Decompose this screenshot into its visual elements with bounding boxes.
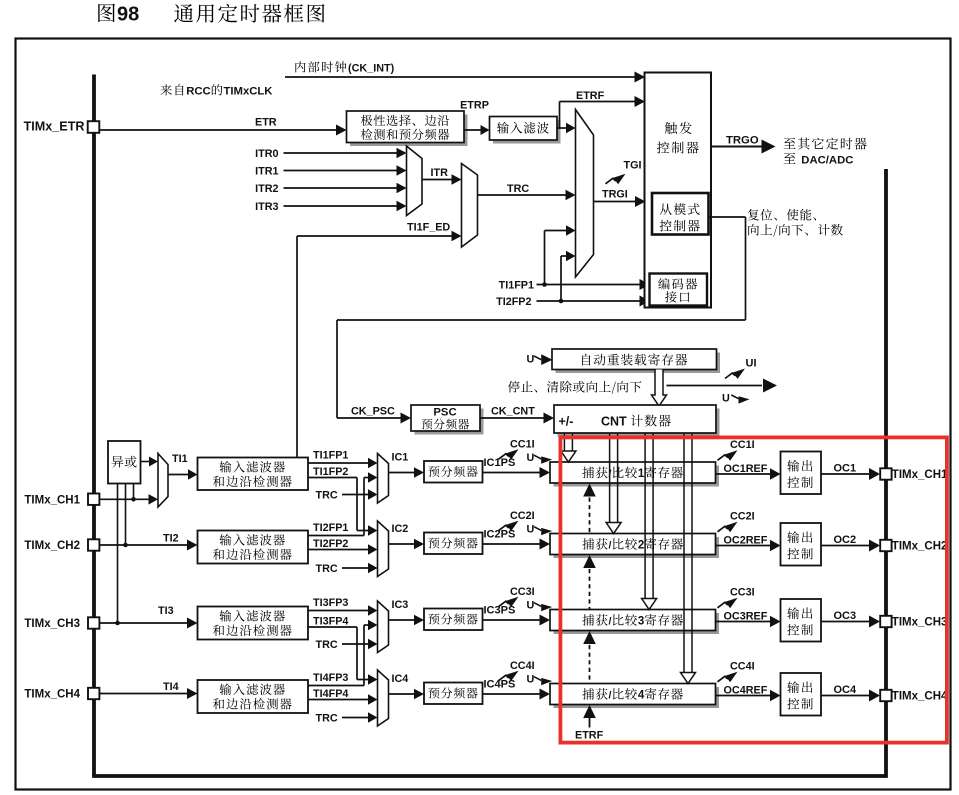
- pin TIMx_CH1: [24, 494, 99, 507]
- wire U event symbol: [722, 393, 750, 405]
- label 复位、使能、向上/向下、计数: [748, 209, 843, 237]
- wire TRC to trigger mux: [478, 183, 576, 200]
- block U2 输入滤波: [490, 117, 561, 144]
- wire IC1: [389, 452, 425, 478]
- wire cross down into row 2 mux: [357, 525, 378, 535]
- svg-text:TIMx_CH3: TIMx_CH3: [24, 618, 80, 630]
- label 捕获/比较2寄存器: [582, 538, 683, 552]
- hollow arrow auto-reload to counter: [652, 370, 667, 407]
- wire TI1FP1: [308, 450, 378, 469]
- hollow arrow counter to capture 2: [606, 434, 621, 534]
- pin TIMx_ETR: [24, 120, 100, 134]
- label 捕获/比较1寄存器: [582, 466, 683, 480]
- svg-text:TI2FP2: TI2FP2: [313, 538, 348, 550]
- pin TIMx_CH2 right: [880, 540, 947, 553]
- svg-text:U: U: [527, 674, 535, 686]
- svg-text:TI1: TI1: [172, 453, 188, 465]
- svg-text:IC1: IC1: [392, 452, 409, 464]
- block output control 输出控制 row 2: [781, 523, 822, 566]
- interrupt CC1I left: [499, 439, 535, 460]
- svg-text:OC1REF: OC1REF: [724, 463, 768, 475]
- pin TIMx_CH4 right: [880, 690, 948, 703]
- mux IC4 selector: [378, 670, 389, 726]
- wire TI4FP4: [308, 688, 378, 705]
- wire OC4REF: [716, 685, 781, 702]
- svg-text:TIMx_CH2: TIMx_CH2: [24, 540, 80, 552]
- block U7 PSC 预分频器: [411, 405, 484, 435]
- interrupt CC1I right: [718, 439, 755, 461]
- svg-text:TI4FP4: TI4FP4: [313, 688, 348, 700]
- block prescaler 预分频器 row 3: [424, 609, 483, 631]
- wire ETRF branch into mux: [557, 123, 576, 133]
- wire TIMx_CH1 input: [99, 494, 158, 505]
- wire U capture row 3: [527, 600, 553, 612]
- svg-text:(CK_INT): (CK_INT): [348, 63, 395, 75]
- svg-text:TI1FP2: TI1FP2: [313, 466, 348, 478]
- svg-text:TI3FP3: TI3FP3: [313, 597, 348, 609]
- wire OC2REF: [716, 535, 781, 552]
- left bus wire: [92, 75, 96, 777]
- wire IC2: [389, 523, 425, 549]
- wire U event into auto-reload: [527, 354, 553, 366]
- svg-text:CC3I: CC3I: [510, 586, 535, 598]
- wire TRC row 2: [316, 563, 378, 575]
- svg-text:IC4: IC4: [392, 673, 409, 685]
- svg-text:TI3: TI3: [158, 605, 174, 617]
- block capture compare register 3: [550, 610, 719, 635]
- interrupt CC2I right: [718, 511, 755, 533]
- wire TRGI: [594, 189, 646, 208]
- wire TI4FP3: [308, 625, 364, 686]
- svg-text:ETRF: ETRF: [576, 90, 605, 102]
- interrupt TGI: [606, 160, 642, 185]
- wire OC1: [821, 463, 880, 481]
- svg-text:CC4I: CC4I: [730, 661, 755, 673]
- svg-text:TI2FP1: TI2FP1: [313, 522, 348, 534]
- block capture compare register 4: [550, 684, 719, 709]
- wire TI4: [99, 681, 197, 699]
- svg-text:ITR1: ITR1: [255, 165, 278, 177]
- label 内部时钟 (CK_INT): [295, 61, 394, 74]
- wires ITR0-ITR3: [255, 148, 406, 213]
- wire U event out: [667, 379, 778, 393]
- svg-text:TIMx_CH1: TIMx_CH1: [892, 469, 948, 481]
- mux IC2 selector: [378, 521, 389, 577]
- wire CK_INT internal clock: [285, 72, 645, 83]
- svg-text:ITR3: ITR3: [255, 201, 278, 213]
- svg-text:TI4FP3: TI4FP3: [313, 672, 348, 684]
- svg-text:98: 98: [117, 4, 139, 26]
- pin TIMx_CH1 right: [880, 468, 948, 481]
- wire TI3FP4: [308, 616, 357, 680]
- svg-text:/: /: [609, 540, 612, 552]
- svg-text:ETRF: ETRF: [575, 730, 604, 742]
- block capture compare register 2: [550, 534, 719, 559]
- block input filter 输入滤波器和边沿检测器 row 4: [198, 680, 309, 713]
- block U5 编码器接口: [650, 274, 708, 306]
- wire TI2FP2 to encoder: [496, 296, 650, 309]
- block U6 自动重装载寄存器: [552, 349, 720, 373]
- block prescaler 预分频器 row 4: [424, 683, 483, 705]
- wire ETRF to trigger controller: [557, 90, 645, 128]
- svg-text:U: U: [527, 452, 535, 464]
- dashed capture feedback arrow 3: [583, 631, 596, 683]
- block output control 输出控制 row 1: [781, 452, 822, 495]
- svg-text:OC4: OC4: [834, 684, 858, 696]
- block output control 输出控制 row 4: [781, 673, 822, 716]
- block capture compare register 1: [550, 462, 719, 487]
- wire TI1FP2: [308, 466, 357, 531]
- wire IC3: [389, 599, 425, 625]
- svg-text:ETR: ETR: [255, 117, 277, 129]
- svg-text:CNT: CNT: [601, 415, 627, 429]
- svg-text:PSC: PSC: [433, 407, 456, 419]
- label 停止、清除或向上/向下: [508, 381, 642, 394]
- svg-text:U: U: [527, 354, 535, 366]
- svg-text:DAC/ADC: DAC/ADC: [801, 155, 853, 167]
- svg-text:OC3REF: OC3REF: [724, 611, 768, 623]
- svg-text:TI3FP4: TI3FP4: [313, 616, 348, 628]
- block input filter 输入滤波器和边沿检测器 row 2: [198, 531, 309, 564]
- label 捕获/比较4寄存器: [582, 688, 683, 702]
- svg-text:TI2: TI2: [163, 533, 179, 545]
- wire cross up into row 1 mux: [364, 472, 378, 482]
- svg-text:4: 4: [638, 690, 645, 702]
- dashed capture feedback arrow 2: [583, 555, 596, 609]
- svg-text:TI2FP2: TI2FP2: [496, 296, 531, 308]
- wire slave mode to prescaler clock path: [337, 217, 746, 424]
- svg-text:2: 2: [638, 540, 644, 552]
- mux IC3 selector: [378, 601, 389, 653]
- hollow arrow counter to capture 1: [561, 434, 576, 463]
- svg-text:TI1FP1: TI1FP1: [499, 280, 534, 292]
- svg-text:CC3I: CC3I: [730, 587, 755, 599]
- title 图98 通用定时器框图: [98, 4, 324, 26]
- wire TI2FP2 tap to mux: [559, 251, 576, 304]
- wire XOR output: [141, 457, 159, 467]
- svg-text:/: /: [609, 616, 612, 628]
- svg-text:CC2I: CC2I: [730, 511, 755, 523]
- svg-text:TIMx_CH2: TIMx_CH2: [892, 541, 948, 553]
- wire ETRP: [460, 100, 489, 136]
- svg-text:1: 1: [638, 468, 645, 480]
- block input filter 输入滤波器和边沿检测器 row 1: [198, 458, 309, 491]
- svg-text:ETRP: ETRP: [460, 100, 489, 112]
- svg-text:CC4I: CC4I: [510, 660, 535, 672]
- svg-text:OC4REF: OC4REF: [724, 685, 768, 697]
- svg-text:TRGO: TRGO: [726, 135, 759, 147]
- svg-text:+/-: +/-: [559, 415, 574, 429]
- svg-text:3: 3: [638, 616, 644, 628]
- svg-text:CC1I: CC1I: [730, 439, 755, 451]
- interrupt CC2I left: [499, 510, 535, 531]
- wire TI2FP2: [308, 538, 378, 555]
- svg-text:CC2I: CC2I: [510, 510, 535, 522]
- svg-text:TIMx_CH3: TIMx_CH3: [892, 617, 948, 629]
- interrupt CC4I left: [499, 660, 535, 681]
- svg-text:TIMx_ETR: TIMx_ETR: [24, 120, 85, 134]
- svg-text:UI: UI: [746, 358, 757, 370]
- wire U capture row 1: [527, 452, 553, 464]
- svg-text:TRC: TRC: [316, 490, 338, 502]
- wire ETR: [99, 117, 346, 136]
- wire OC3REF: [716, 611, 781, 628]
- wire TI3: [99, 605, 197, 629]
- wire IC4: [389, 673, 425, 699]
- wire TI2FP1: [308, 478, 364, 536]
- svg-text:TI1F_ED: TI1F_ED: [407, 222, 450, 234]
- wire TRC row 1: [316, 489, 378, 501]
- pin TIMx_CH3 right: [880, 616, 947, 629]
- mux ITR selector: [407, 146, 423, 216]
- wire cross up into row 3 mux: [364, 620, 378, 630]
- red highlight rectangle: [560, 437, 947, 742]
- label 捕获/比较3寄存器: [582, 614, 683, 628]
- svg-text:ITR2: ITR2: [255, 183, 278, 195]
- wire OC3: [821, 610, 880, 628]
- block input filter 输入滤波器和边沿检测器 row 3: [198, 607, 309, 640]
- svg-text:TI1FP1: TI1FP1: [313, 450, 348, 462]
- right bus wire: [884, 169, 888, 778]
- wire IC3PS: [483, 605, 551, 626]
- svg-text:TRC: TRC: [316, 563, 338, 575]
- svg-text:IC2: IC2: [392, 523, 409, 535]
- svg-text:/: /: [609, 468, 612, 480]
- wire OC2: [821, 534, 880, 552]
- svg-text:TRC: TRC: [316, 639, 338, 651]
- svg-text:TRC: TRC: [316, 713, 338, 725]
- svg-text:TIMx_CH4: TIMx_CH4: [892, 691, 948, 703]
- wire U capture row 4: [527, 674, 553, 686]
- mux trigger selection: [576, 110, 594, 278]
- svg-text:/: /: [609, 690, 612, 702]
- dashed capture feedback arrow 1: [583, 484, 596, 534]
- wire TI1: [168, 453, 198, 480]
- mux TI1 xor selector: [158, 454, 168, 508]
- wire cross down into row 4 mux: [357, 674, 378, 684]
- svg-text:ITR: ITR: [431, 167, 449, 179]
- svg-text:OC2REF: OC2REF: [724, 535, 768, 547]
- hollow arrow counter to capture 3: [642, 434, 657, 610]
- wire TI1F_ED: [297, 222, 462, 459]
- hollow arrow counter to capture 4: [681, 434, 696, 684]
- wire TI3FP3: [308, 597, 378, 616]
- interrupt CC3I right: [718, 587, 755, 609]
- svg-text:OC3: OC3: [834, 610, 857, 622]
- svg-text:CC1I: CC1I: [510, 439, 535, 451]
- block U1 极性选择、边沿检测和预分频器: [347, 111, 468, 146]
- block prescaler 预分频器 row 2: [424, 533, 483, 555]
- svg-text:TI4: TI4: [163, 681, 179, 693]
- wire TI1FP1 to encoder: [499, 279, 650, 292]
- wire ITR: [422, 167, 462, 185]
- interrupt CC4I right: [718, 661, 755, 683]
- block U9 异或: [108, 441, 141, 484]
- pin TIMx_CH4: [24, 688, 99, 701]
- wire U capture row 2: [527, 524, 553, 536]
- svg-text:TIMx_CH1: TIMx_CH1: [24, 495, 80, 507]
- svg-text:RCC: RCC: [186, 86, 210, 98]
- svg-text:TGI: TGI: [624, 160, 642, 172]
- svg-text:ITR0: ITR0: [255, 148, 278, 160]
- mux IC1 selector: [378, 454, 389, 504]
- svg-text:TRC: TRC: [507, 183, 529, 195]
- mux TRC selector: [462, 164, 478, 248]
- wire TI2: [99, 533, 197, 551]
- svg-text:OC2: OC2: [834, 534, 857, 546]
- wire OC1REF: [716, 463, 781, 480]
- wire IC2PS: [483, 529, 551, 550]
- wire ETRF bottom: [575, 705, 604, 742]
- wire TRC row 3: [316, 639, 378, 651]
- block U3 触发控制器: [645, 73, 712, 308]
- block output control 输出控制 row 3: [781, 599, 822, 642]
- wire TRGO: [711, 135, 776, 154]
- svg-text:U: U: [527, 524, 535, 536]
- wire IC1PS: [483, 457, 551, 478]
- svg-text:TRGI: TRGI: [602, 189, 628, 201]
- interrupt CC3I left: [499, 586, 535, 607]
- block prescaler 预分频器 row 1: [424, 461, 483, 483]
- block U4 从模式控制器: [652, 193, 709, 235]
- block U8 CNT 计数器: [554, 405, 720, 437]
- wire XOR inputs: [115, 484, 136, 626]
- svg-text:OC1: OC1: [834, 463, 857, 475]
- label 至其它定时器 至 DAC/ADC: [784, 138, 867, 167]
- wire CK_CNT: [480, 406, 554, 424]
- label 来自RCC的TIMxCLK: [160, 84, 273, 97]
- svg-text:TIMxCLK: TIMxCLK: [224, 86, 274, 98]
- svg-text:TIMx_CH4: TIMx_CH4: [24, 689, 80, 701]
- wire TI1FP1 tap to mux: [542, 225, 575, 287]
- svg-text:CK_CNT: CK_CNT: [491, 406, 535, 418]
- pin TIMx_CH2: [24, 539, 99, 552]
- svg-text:IC3: IC3: [392, 599, 409, 611]
- svg-text:U: U: [527, 600, 535, 612]
- svg-text:CK_PSC: CK_PSC: [351, 406, 395, 418]
- wire IC4PS: [483, 679, 551, 700]
- wire OC4: [821, 684, 880, 702]
- svg-text:U: U: [722, 393, 730, 405]
- wire TRC row 4: [316, 712, 378, 724]
- bottom bus wire: [92, 774, 886, 778]
- pin TIMx_CH3: [24, 617, 99, 630]
- interrupt UI: [725, 358, 757, 379]
